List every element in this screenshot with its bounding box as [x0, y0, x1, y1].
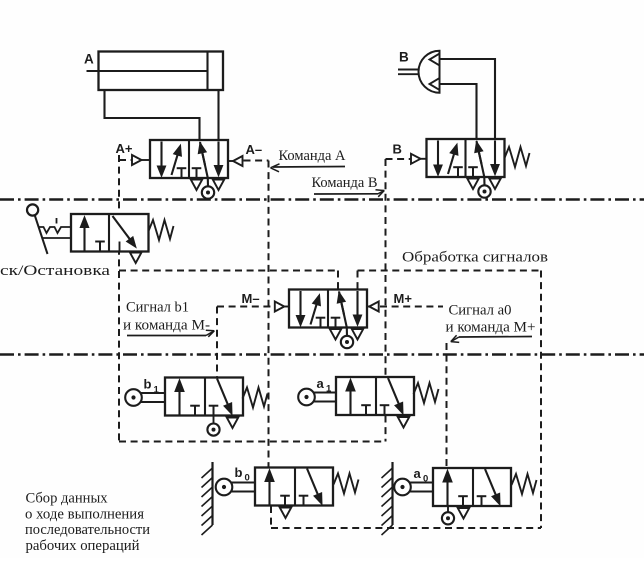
- label B (pilot): [393, 142, 402, 157]
- svg-text:А+: А+: [116, 141, 133, 156]
- actuator B: [398, 51, 440, 93]
- label A+: [116, 141, 133, 156]
- note i komanda M+: [446, 320, 536, 336]
- wire A- pilot to b0 output (dashed): [244, 161, 269, 468]
- wire b0 supply stub (dashed): [270, 506, 272, 528]
- svg-text:А–: А–: [246, 142, 263, 157]
- label b1: [144, 377, 160, 396]
- valve a0 roller: [394, 479, 433, 496]
- label M-: [242, 291, 260, 306]
- valve a0 source: [442, 506, 454, 524]
- svg-text:b: b: [235, 465, 243, 480]
- label b0: [235, 465, 250, 484]
- valve B spring: [505, 147, 530, 167]
- note i komanda M-: [123, 318, 210, 334]
- svg-text:В: В: [393, 142, 402, 157]
- pilot A+ triangle: [132, 155, 150, 165]
- wire B pilot to a1 output (dashed): [386, 159, 411, 377]
- note Signal a0: [449, 303, 512, 319]
- section divider line 1 (dash-dot): [0, 198, 644, 200]
- svg-text:b: b: [144, 377, 152, 392]
- cylinder A: [87, 52, 224, 91]
- valve b1 (3/2 roller): [165, 378, 243, 429]
- valve M (5/2 memory): [289, 290, 367, 349]
- pilot B triangle: [411, 154, 427, 164]
- wire supply header y270.5 right segment (dashed): [358, 270, 542, 272]
- valve a0 wall: [382, 462, 393, 535]
- wire bottom header y528 (dashed): [271, 527, 541, 529]
- note Komanda B: [312, 175, 378, 191]
- wire vertical pilot bus x119 (dashed): [118, 155, 120, 441]
- label a1: [317, 376, 333, 395]
- label B (actuator): [399, 50, 409, 65]
- wire M+ pilot (dashed): [380, 306, 443, 308]
- valve a1 (3/2 roller): [336, 377, 414, 428]
- label A (cylinder): [84, 52, 94, 67]
- svg-text:a: a: [414, 466, 422, 481]
- start valve lever with detent: [27, 204, 71, 254]
- valve b1 source: [207, 406, 219, 436]
- svg-text:В: В: [399, 50, 409, 65]
- note Signal b1: [126, 300, 189, 316]
- start/stop valve (3/2 lever): [71, 214, 149, 252]
- svg-text:1: 1: [326, 384, 332, 395]
- start valve spring: [149, 220, 174, 240]
- wire actuator B lower port: [440, 84, 477, 139]
- wire actuator B upper port: [440, 59, 495, 139]
- wire cylinder A right port to valve A: [217, 89, 219, 140]
- arrow under Komanda B: [314, 190, 384, 197]
- svg-text:последовательности: последовательности: [25, 522, 150, 538]
- svg-text:А: А: [84, 52, 94, 67]
- valve b0 wall: [202, 462, 213, 535]
- svg-text:рабочих операций: рабочих операций: [26, 538, 140, 554]
- label A-: [246, 142, 263, 157]
- valve b1 spring: [243, 388, 268, 408]
- svg-text:М–: М–: [242, 291, 260, 306]
- svg-text:Команда А: Команда А: [279, 148, 347, 164]
- start valve exhaust triangle: [130, 253, 142, 264]
- valve b1 roller: [125, 389, 165, 406]
- note Obrabotka signalov: [402, 250, 548, 266]
- svg-text:Сигнал a0: Сигнал a0: [449, 303, 512, 319]
- svg-text:1: 1: [154, 385, 160, 396]
- note Komanda A: [279, 148, 347, 164]
- wire right border x541 (dashed): [540, 271, 542, 529]
- valve A (5/2): [150, 140, 228, 199]
- pilot M+ triangle: [367, 302, 379, 312]
- arrow under signal a0: [451, 335, 532, 342]
- svg-text:М+: М+: [394, 291, 413, 306]
- wire start-valve output horizontal y270.5 (dashed): [119, 270, 338, 272]
- svg-text:о ходе выполнения: о ходе выполнения: [25, 506, 144, 522]
- note Pusk/Ostanovka: [0, 263, 110, 279]
- svg-text:Обработка сигналов: Обработка сигналов: [402, 250, 548, 266]
- wire b1 output to M- (dashed): [216, 307, 218, 378]
- svg-text:и команда М-: и команда М-: [123, 318, 210, 334]
- svg-text:Команда В: Команда В: [312, 175, 378, 191]
- arrow under signal b1: [127, 330, 214, 337]
- wire cylinder A left port to valve A: [105, 89, 200, 140]
- svg-text:Сигнал b1: Сигнал b1: [126, 300, 189, 316]
- note data collection block: [25, 491, 150, 555]
- valve a1 roller: [298, 389, 336, 406]
- pilot A- triangle: [228, 156, 243, 166]
- valve a0 spring: [512, 474, 537, 494]
- pilot M- triangle: [275, 302, 289, 312]
- wire M- pilot (dashed): [217, 306, 275, 308]
- wire a0 output riser (dashed): [446, 343, 448, 468]
- valve a0 (3/2 roller): [433, 468, 511, 519]
- valve b0 spring: [334, 474, 359, 494]
- svg-text:ск/Остановка: ск/Остановка: [0, 263, 110, 279]
- valve a1 spring: [414, 383, 439, 403]
- arrow under Komanda A: [271, 164, 346, 172]
- svg-text:0: 0: [423, 474, 428, 485]
- valve b0 roller: [216, 479, 255, 496]
- svg-text:и команда М+: и команда М+: [446, 320, 536, 336]
- valve B (3-port, spring return): [427, 139, 505, 198]
- label a0: [414, 466, 429, 485]
- svg-text:Сбор данных: Сбор данных: [26, 491, 109, 507]
- label M+: [394, 291, 413, 306]
- svg-text:a: a: [317, 376, 325, 391]
- svg-text:0: 0: [245, 473, 250, 484]
- wire bottom pilot header y441.5 (dashed): [119, 441, 386, 443]
- wire stub into valve M port 2 (dashed): [357, 271, 359, 290]
- valve b0 (3/2 roller): [255, 468, 333, 519]
- wire A+ pilot branch (dashed): [119, 159, 132, 161]
- wire stub into valve M port 4 (dashed): [337, 271, 339, 290]
- section divider line 2 (dash-dot): [0, 353, 644, 355]
- wire a1 bottom stub (dashed): [385, 416, 387, 442]
